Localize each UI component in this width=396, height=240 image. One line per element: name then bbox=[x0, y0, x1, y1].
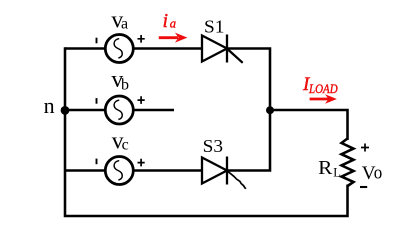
svg-text:a: a bbox=[121, 16, 128, 33]
svg-text:S1: S1 bbox=[204, 16, 224, 36]
svg-text:n: n bbox=[44, 93, 55, 118]
svg-text:b: b bbox=[121, 76, 129, 93]
svg-text:o: o bbox=[374, 163, 383, 184]
svg-text:L: L bbox=[333, 166, 341, 180]
svg-text:a: a bbox=[170, 15, 177, 30]
svg-text:LOAD: LOAD bbox=[308, 82, 338, 96]
svg-text:i: i bbox=[163, 10, 169, 32]
svg-text:R: R bbox=[318, 158, 332, 179]
svg-text:S3: S3 bbox=[203, 136, 223, 156]
svg-text:c: c bbox=[122, 136, 129, 153]
